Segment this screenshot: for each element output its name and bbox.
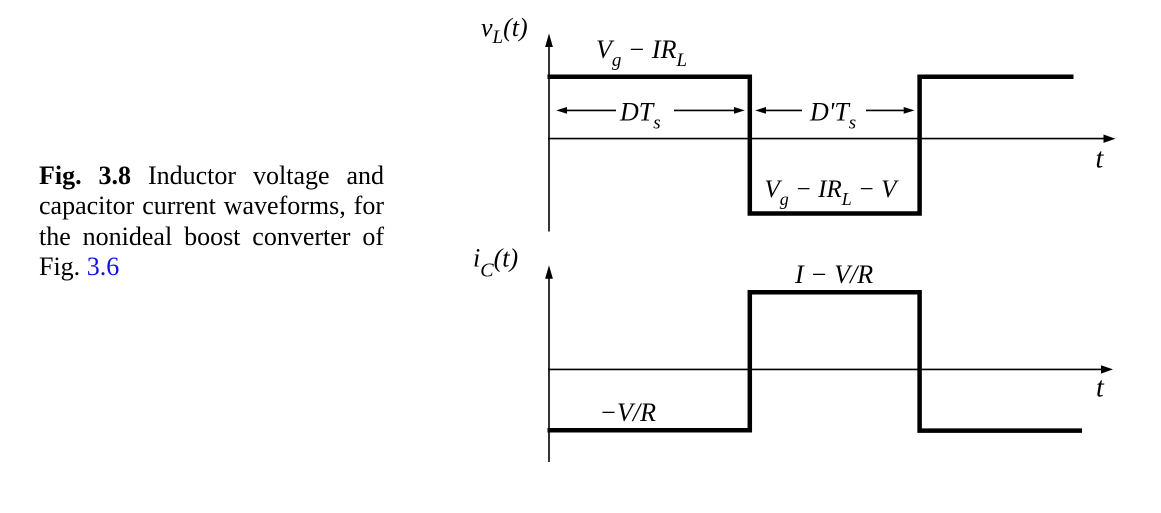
svg-text:D'Ts: D'Ts bbox=[809, 98, 856, 134]
svg-text:t: t bbox=[1096, 144, 1105, 175]
svg-text:−V/R: −V/R bbox=[600, 398, 657, 427]
svg-text:Vg − IRL: Vg − IRL bbox=[596, 35, 687, 71]
wire capacitor current waveform bbox=[548, 292, 1083, 430]
figure caption bbox=[39, 161, 384, 282]
svg-text:DTs: DTs bbox=[619, 98, 661, 134]
node time axis arrowhead (bottom plot) bbox=[1101, 365, 1113, 373]
svg-text:vL(t): vL(t) bbox=[481, 13, 528, 48]
svg-text:Vg − IRL − V: Vg − IRL − V bbox=[765, 176, 900, 209]
node vertical axis arrowhead (bottom plot) bbox=[545, 265, 553, 279]
node DTs interval arrow left bbox=[556, 107, 567, 114]
node D'Ts interval arrow right bbox=[904, 107, 915, 114]
wire vertical axis (top plot) bbox=[548, 40, 550, 232]
svg-text:t: t bbox=[1096, 373, 1105, 404]
wire D'Ts arrow left shaft bbox=[765, 109, 802, 111]
node DTs interval arrow right bbox=[734, 107, 745, 114]
wire vertical axis (bottom plot) bbox=[548, 272, 550, 462]
node D'Ts interval arrow left bbox=[755, 107, 766, 114]
wire DTs arrow right shaft bbox=[674, 109, 735, 111]
wire time axis (top plot) bbox=[548, 138, 1105, 140]
node vertical axis arrowhead (top plot) bbox=[545, 34, 553, 48]
wire D'Ts arrow right shaft bbox=[866, 109, 905, 111]
svg-text:I − V/R: I − V/R bbox=[794, 260, 873, 289]
wire time axis (bottom plot) bbox=[548, 368, 1103, 370]
node time axis arrowhead (top plot) bbox=[1104, 135, 1116, 143]
svg-text:iC(t): iC(t) bbox=[473, 243, 518, 281]
wire DTs arrow left shaft bbox=[566, 109, 616, 111]
wire inductor voltage waveform bbox=[548, 77, 1074, 214]
